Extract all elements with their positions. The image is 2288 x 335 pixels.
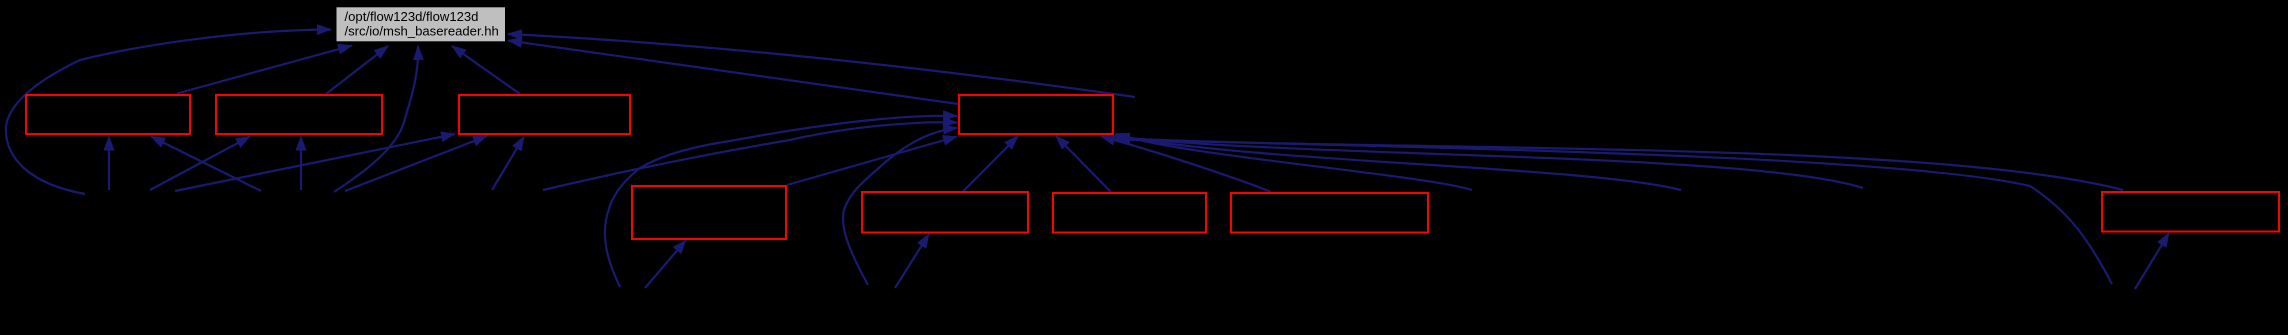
wire edge e4: hidden node to gray header bottom (bow curve) [334, 46, 418, 192]
wire edge e3: box B top to gray header bottom [326, 46, 388, 94]
node H red box [1231, 193, 1428, 233]
wire edge e14: hidden node to box C bottom (steep) [492, 137, 524, 191]
wire edge e5: box C top to gray header bottom [452, 46, 520, 94]
wire edge e24: hidden node to hub right corner [1116, 137, 1864, 189]
wire edge e25: box I to hub right corner (longest line) [1116, 138, 2124, 190]
wire edge e19: box F top to hub bottom [963, 136, 1018, 192]
svg-text:/opt/flow123d/flow123d: /opt/flow123d/flow123d [345, 9, 479, 24]
node G red box [1053, 193, 1206, 233]
wire edge e15: hidden node to hub left edge (long shallow) [543, 122, 957, 190]
wire edge e2: box A top to gray header bottom [177, 46, 352, 94]
node I red box [2102, 192, 2279, 232]
wire edge e12: hidden node to box C lower-left corner [175, 134, 455, 191]
wire edge e7: hub box to gray header right [508, 41, 958, 105]
wire edge e6: hidden node right of hub to gray header right [508, 34, 1135, 97]
node E red box (two-line) [632, 186, 786, 239]
node D hub red box [959, 95, 1113, 134]
wire edge e18: box E corner to hub lower-left corner [787, 137, 957, 186]
wire edge e13: hidden node to box C bottom [345, 136, 487, 191]
wire edge e22: hidden node to hub right corner [1116, 134, 1473, 191]
wire edge e27: hidden node to box I bottom [2135, 233, 2169, 289]
wire edge e11: hidden node to box B bottom (vertical) [300, 137, 302, 191]
node1 gray header box [336, 6, 507, 42]
wire edge e9: hidden node to box A bottom (diagonal) [151, 137, 261, 192]
wire edge e26: node below I to hub right corner (curve) [1116, 140, 2112, 285]
wire edge e23: hidden node to hub right corner [1116, 135, 1682, 190]
wire edge e10: hidden node to box B bottom (diagonal) [150, 137, 250, 191]
wire edge e1: node below A to gray header left [6, 30, 331, 195]
node A red box [26, 95, 190, 134]
svg-text:/src/io/msh_basereader.hh: /src/io/msh_basereader.hh [345, 24, 499, 39]
wire edge e20: box G top to hub bottom [1056, 136, 1111, 192]
node C red box [459, 95, 630, 134]
wire edge e21: box H top to hub bottom right [1101, 137, 1271, 193]
wire edge e28: hidden node to box E bottom [645, 240, 686, 288]
wire edge e8: hidden node to box A bottom (vertical) [108, 137, 110, 191]
wire edge e17: node below F to hub left edge (curve) [843, 128, 957, 285]
node F red box [862, 192, 1028, 233]
node B red box [216, 95, 382, 134]
wire edge e29: hidden node to box F bottom [895, 234, 929, 288]
wire edge e16: node below E to hub left edge (long curve) [605, 116, 957, 287]
